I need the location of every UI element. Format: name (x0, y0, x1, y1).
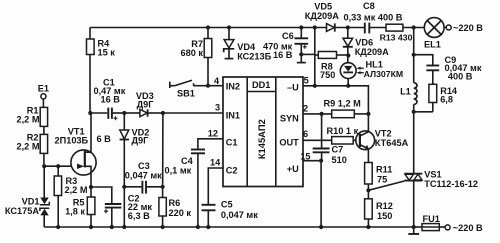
svg-text:ТС112-16-12: ТС112-16-12 (424, 179, 478, 189)
svg-text:6,8: 6,8 (440, 94, 453, 104)
terminal ~220 В bottom (439, 226, 445, 228)
svg-text:HL1: HL1 (366, 59, 383, 69)
transistor VT1 2П103Б (71, 150, 96, 175)
wire -U drop from rail (313, 25, 317, 29)
svg-text:75: 75 (377, 175, 387, 185)
capacitor C8 0,33 мк (364, 23, 366, 34)
node IN1/R6 junction (161, 111, 165, 115)
wire bottom rail (44, 226, 414, 228)
resistor R10 1 к (303, 139, 332, 141)
svg-text:IN1: IN1 (226, 110, 240, 120)
svg-text:~220 В: ~220 В (453, 223, 483, 233)
svg-text:R13 430: R13 430 (380, 33, 413, 43)
svg-text:14: 14 (210, 157, 221, 167)
wire lamp branch down (413, 28, 415, 83)
svg-text:КД209А: КД209А (355, 47, 389, 57)
wire R1-R2 (43, 126, 45, 134)
svg-text:0,047 мк: 0,047 мк (221, 210, 258, 220)
node source junction (89, 185, 93, 189)
wire gate line (44, 165, 71, 167)
svg-text:2,2 М: 2,2 М (65, 185, 88, 195)
wire pin15 (303, 160, 321, 162)
resistor R4 (87, 39, 95, 55)
resistor R9 1,2 М (320, 112, 324, 116)
diode VD6 КД209А (346, 25, 350, 29)
wire top rail (90, 27, 327, 29)
svg-text:4: 4 (214, 76, 220, 86)
wire R4 to drain node (89, 55, 91, 114)
wire IN1 to IC (163, 112, 223, 114)
svg-text:R12: R12 (376, 201, 393, 211)
capacitor C3 0,047 мк (124, 186, 141, 188)
svg-text:2П103Б: 2П103Б (55, 136, 89, 146)
svg-text:R6: R6 (169, 198, 181, 208)
ground (413, 227, 415, 233)
svg-text:C7: C7 (332, 145, 344, 155)
svg-text:VD1: VD1 (22, 196, 40, 206)
node pin4 junction (206, 84, 210, 88)
svg-text:16 В: 16 В (101, 94, 121, 104)
LED HL1 АЛ307КМ (340, 63, 356, 79)
svg-text:R10 1 к: R10 1 к (327, 126, 359, 136)
svg-text:КС213Б: КС213Б (237, 52, 271, 62)
resistor R3 (57, 166, 59, 176)
svg-text:2,2 М: 2,2 М (17, 141, 40, 151)
triac VS1 ТС112-16-12 (404, 173, 422, 175)
resistor R1 (40, 107, 47, 126)
svg-text:EL1: EL1 (424, 40, 441, 50)
svg-text:OUT: OUT (279, 138, 299, 148)
zener VD1 КС175А (43, 166, 45, 197)
wire to VS1 (413, 112, 415, 174)
svg-text:IN2: IN2 (226, 82, 240, 92)
IC DD1 К145АП2 (223, 77, 303, 187)
svg-text:2: 2 (303, 104, 308, 114)
resistor R11 75 (365, 163, 373, 185)
inductor L1 (414, 83, 417, 105)
terminal ~220 В top (444, 27, 446, 29)
svg-text:VT2: VT2 (375, 129, 392, 139)
svg-text:FU1: FU1 (423, 214, 440, 224)
svg-text:15 к: 15 к (98, 48, 116, 58)
svg-text:12: 12 (208, 129, 218, 139)
svg-text:C8: C8 (363, 1, 375, 11)
svg-text:3: 3 (215, 102, 220, 112)
svg-text:400 В: 400 В (448, 72, 473, 82)
svg-text:C6: C6 (282, 31, 294, 41)
diode VD2 Д9Г (123, 113, 125, 130)
resistor R13 430 (386, 24, 403, 31)
capacitor C7 510 (321, 114, 323, 148)
svg-text:E1: E1 (38, 84, 49, 94)
svg-text:0,047 мк: 0,047 мк (125, 171, 162, 181)
svg-text:15: 15 (300, 151, 310, 161)
node C3/R6 junction (161, 185, 165, 189)
capacitor C9 0,047 мк 400 В (414, 55, 433, 65)
svg-text:0,33 мк 400 В: 0,33 мк 400 В (344, 13, 403, 23)
svg-text:6 В: 6 В (97, 134, 112, 144)
capacitor C5 0,047 мк (208, 168, 223, 204)
svg-text:220 к: 220 к (169, 208, 192, 218)
svg-text:SB1: SB1 (177, 88, 195, 98)
svg-text:Д9Г: Д9Г (132, 135, 150, 145)
svg-text:0,1 мк: 0,1 мк (165, 165, 192, 175)
wire source node (91, 187, 112, 204)
svg-text:680 к: 680 к (181, 48, 204, 58)
node R2/VD1 junction (42, 164, 46, 168)
svg-text:150: 150 (377, 211, 392, 221)
wire pin5 (303, 86, 368, 132)
wire R2 to gate node (43, 153, 45, 166)
node drain junction (88, 111, 92, 115)
svg-text:C5: C5 (221, 199, 233, 209)
resistor R14 6,8 (429, 84, 437, 102)
svg-text:К145АП2: К145АП2 (256, 119, 267, 159)
wire left vertical R4 column (89, 28, 91, 40)
node R8/HL1 junction (346, 53, 350, 57)
wire VS1 gate (368, 181, 404, 190)
svg-text:C2: C2 (226, 165, 238, 175)
svg-text:+U: +U (287, 164, 299, 174)
resistor R7 680 к (206, 25, 210, 29)
diode VD3 Д9Г (124, 112, 140, 114)
capacitor C2 22 мк (105, 203, 122, 205)
svg-text:–U: –U (287, 83, 299, 93)
svg-text:L1: L1 (400, 87, 411, 97)
svg-text:АЛ307КМ: АЛ307КМ (364, 69, 404, 79)
svg-text:~220 В: ~220 В (453, 23, 483, 33)
capacitor C1 0,47 мк (90, 112, 107, 114)
capacitor C6 470 мк (299, 25, 303, 29)
svg-text:DD1: DD1 (252, 80, 270, 90)
resistor R6 220 к (162, 113, 164, 198)
wire pin4 to IC (208, 85, 223, 87)
svg-text:5: 5 (304, 75, 309, 85)
transistor VT2 КТ645А (356, 131, 375, 150)
node gate junction (366, 188, 370, 192)
svg-text:КТ645А: КТ645А (375, 138, 409, 148)
svg-text:SYN: SYN (280, 113, 299, 123)
svg-text:R11: R11 (376, 165, 392, 175)
resistor R5 (90, 187, 92, 197)
node VD2 bottom junction (122, 185, 126, 189)
svg-text:750: 750 (320, 70, 335, 80)
switch SB1 (169, 82, 171, 88)
lamp EL1 (424, 18, 444, 38)
resistor R8 750 (315, 54, 319, 56)
wire C6 to -U drop (301, 53, 315, 55)
resistor R12 150 (365, 199, 373, 219)
svg-text:6,3 В: 6,3 В (128, 211, 150, 221)
svg-text:1,8 к: 1,8 к (65, 207, 85, 217)
capacitor C4 0,1 мк (198, 139, 223, 149)
svg-text:Д9Г: Д9Г (137, 99, 155, 109)
svg-text:R9 1,2 М: R9 1,2 М (324, 99, 362, 109)
svg-text:2,2 М: 2,2 М (17, 114, 40, 124)
svg-text:510: 510 (332, 155, 347, 165)
svg-text:C1: C1 (226, 137, 238, 147)
node lamp branch junction (412, 25, 416, 29)
fuse FU1 (414, 226, 422, 228)
svg-text:16 В: 16 В (273, 50, 293, 60)
diode VD5 КД209А (327, 24, 335, 32)
wire L1/R14 join (413, 104, 415, 111)
zener VD4 КС213Б (227, 25, 231, 29)
svg-text:6: 6 (303, 129, 308, 139)
resistor R2 (40, 134, 47, 153)
svg-text:КС175А: КС175А (5, 206, 39, 216)
svg-text:VD4: VD4 (237, 42, 256, 52)
node R3 junction (56, 164, 60, 168)
node -U / pin5 junction (313, 84, 317, 88)
svg-text:КД209А: КД209А (305, 11, 339, 21)
node C1/VD2/VD3 junction (122, 111, 126, 115)
